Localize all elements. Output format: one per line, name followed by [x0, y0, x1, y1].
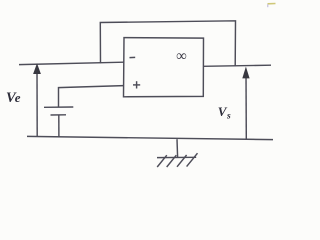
label Vs — [218, 104, 231, 122]
svg-text:e: e — [15, 90, 21, 105]
op-amp U1 gain label infinity — [176, 49, 187, 65]
op-amp U1 non-inverting input pin label + — [133, 81, 140, 88]
op-amp U1 — [124, 38, 204, 97]
wire feedback loop output to inverting input — [100, 21, 235, 66]
wire non-inverting input — [59, 86, 124, 108]
wire inverting input — [19, 62, 124, 64]
battery B1 source — [44, 107, 73, 137]
op-amp U1 inverting input pin label - — [130, 56, 136, 58]
svg-text:∞: ∞ — [176, 49, 187, 65]
wire bottom rail — [27, 136, 273, 139]
label Ve — [6, 90, 21, 106]
ground — [157, 139, 198, 167]
voltage arrow Vs — [242, 67, 249, 140]
wire output — [203, 65, 271, 66]
voltage arrow Ve — [33, 63, 41, 136]
svg-text:s: s — [226, 112, 231, 122]
